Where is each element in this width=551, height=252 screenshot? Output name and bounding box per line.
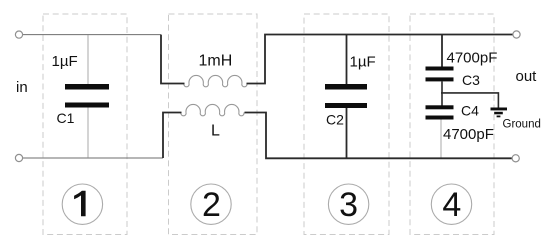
svg-text:C4: C4: [461, 103, 479, 119]
svg-text:2: 2: [202, 186, 221, 224]
svg-text:3: 3: [339, 186, 358, 224]
svg-text:Ground: Ground: [503, 119, 541, 131]
svg-text:C3: C3: [462, 72, 480, 88]
svg-text:L: L: [211, 123, 220, 140]
svg-text:1µF: 1µF: [52, 53, 78, 70]
svg-text:1mH: 1mH: [199, 53, 233, 70]
svg-text:in: in: [16, 79, 28, 96]
svg-text:C2: C2: [326, 112, 344, 128]
svg-text:C1: C1: [57, 110, 75, 126]
svg-text:4700pF: 4700pF: [443, 126, 494, 143]
svg-text:4: 4: [442, 186, 461, 224]
svg-text:1µF: 1µF: [350, 54, 376, 71]
svg-text:4700pF: 4700pF: [447, 50, 498, 67]
svg-text:out: out: [516, 68, 538, 85]
